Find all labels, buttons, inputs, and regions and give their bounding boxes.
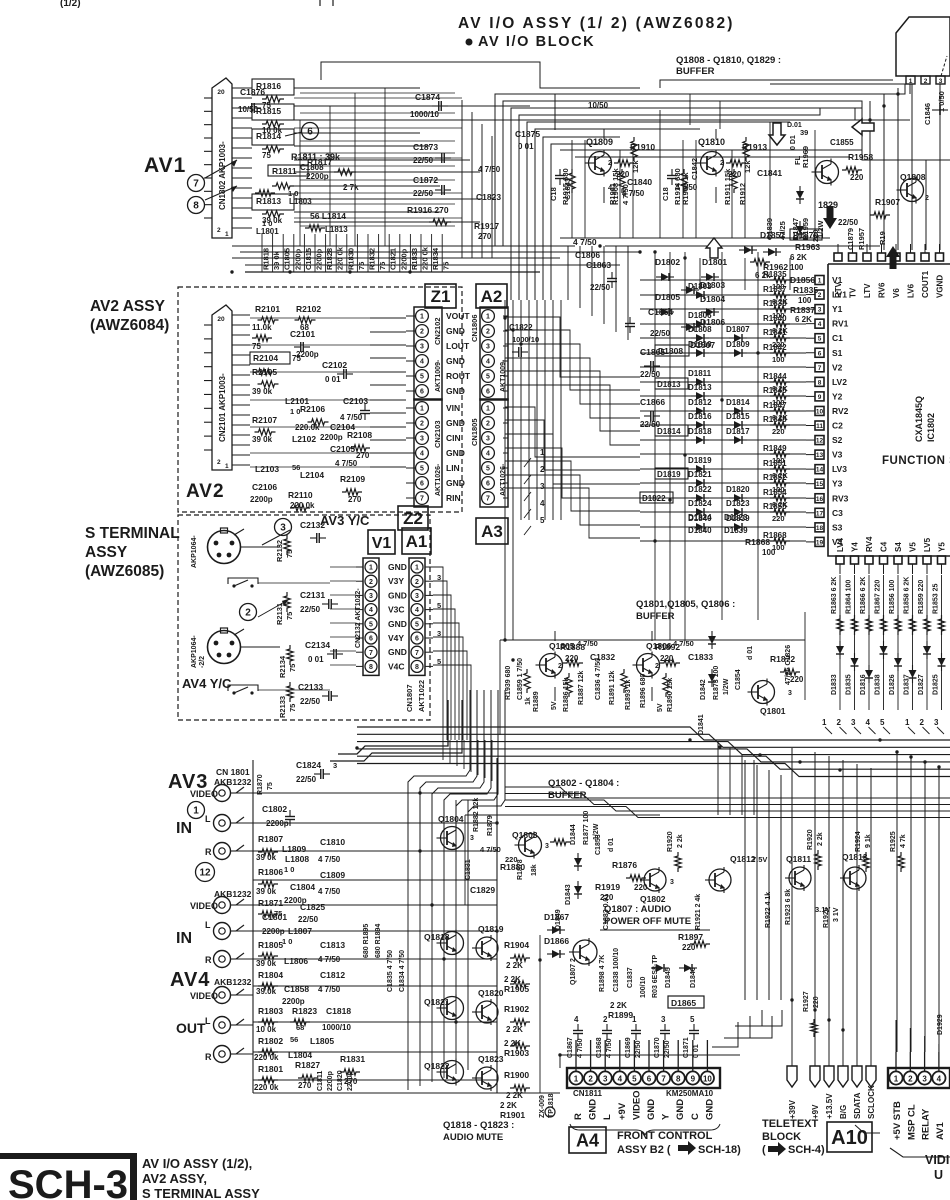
svg-text:C1853: C1853 <box>595 834 602 855</box>
svg-text:D1822: D1822 <box>688 485 712 494</box>
svg-text:3: 3 <box>922 1075 927 1084</box>
svg-text:R1901: R1901 <box>500 1110 525 1120</box>
svg-text:12: 12 <box>199 868 211 879</box>
svg-text:R1866 6 2K: R1866 6 2K <box>860 577 867 614</box>
svg-text:R1891 12k: R1891 12k <box>609 671 616 705</box>
svg-text:C1834 4 7/50: C1834 4 7/50 <box>399 950 406 992</box>
svg-text:R1851: R1851 <box>763 459 787 468</box>
svg-text:R2102: R2102 <box>296 304 321 314</box>
svg-text:IC1802: IC1802 <box>926 413 936 442</box>
svg-text:R1922 4 1k: R1922 4 1k <box>765 892 772 928</box>
svg-text:8: 8 <box>193 201 199 212</box>
svg-text:C18: C18 <box>549 187 558 201</box>
svg-text:R1814: R1814 <box>256 131 281 141</box>
svg-text:+9V: +9V <box>811 1104 820 1119</box>
svg-text:IN: IN <box>176 820 192 837</box>
svg-text:D1818: D1818 <box>688 427 712 436</box>
svg-text:13: 13 <box>816 452 824 459</box>
svg-text:R1817: R1817 <box>307 157 332 167</box>
svg-text:R1856 100: R1856 100 <box>889 580 896 614</box>
svg-text:RELAY: RELAY <box>921 1108 932 1140</box>
svg-text:1000/10: 1000/10 <box>410 110 439 119</box>
svg-text:+39V: +39V <box>788 1099 797 1119</box>
svg-text:9 1k: 9 1k <box>865 834 872 848</box>
svg-text:VIN: VIN <box>446 403 460 413</box>
svg-text:2 2K: 2 2K <box>500 1101 517 1110</box>
svg-text:1: 1 <box>486 406 490 413</box>
svg-text:270: 270 <box>356 451 370 460</box>
svg-text:LIN: LIN <box>446 463 460 473</box>
svg-text:39 0k: 39 0k <box>272 250 281 270</box>
svg-text:R1802: R1802 <box>258 1036 283 1046</box>
svg-text:220 0k: 220 0k <box>421 246 430 270</box>
svg-text:R1907: R1907 <box>875 197 900 207</box>
svg-text:Q1810: Q1810 <box>698 137 725 147</box>
svg-text:L1806: L1806 <box>284 956 308 966</box>
svg-text:C: C <box>690 1113 701 1120</box>
svg-text:D1840: D1840 <box>688 526 712 535</box>
svg-text:R1927: R1927 <box>803 991 810 1012</box>
svg-text:R1842: R1842 <box>763 343 787 352</box>
svg-text:2200p: 2200p <box>266 819 289 828</box>
svg-text:22/50: 22/50 <box>413 189 434 198</box>
svg-text:2: 2 <box>608 160 612 167</box>
svg-text:11.0k: 11.0k <box>252 323 272 332</box>
svg-text:C1804: C1804 <box>290 882 315 892</box>
svg-text:R: R <box>205 847 212 857</box>
svg-text:D1802: D1802 <box>655 257 680 267</box>
svg-text:ZX-009: ZX-009 <box>539 1095 546 1118</box>
svg-text:220: 220 <box>772 427 785 436</box>
svg-text:3: 3 <box>486 344 490 351</box>
svg-text:R1904: R1904 <box>504 940 529 950</box>
svg-text:SCH-4): SCH-4) <box>788 1144 825 1156</box>
svg-text:2200p: 2200p <box>327 1071 334 1091</box>
svg-text:C1842: C1842 <box>690 158 699 180</box>
svg-text:5: 5 <box>632 1075 637 1084</box>
svg-text:Y2: Y2 <box>832 391 843 401</box>
svg-text:S2: S2 <box>832 435 843 445</box>
svg-text:10: 10 <box>703 1075 712 1084</box>
svg-text:6: 6 <box>420 481 424 488</box>
svg-text:75: 75 <box>357 262 366 270</box>
svg-text:Q1807 : AUDIO: Q1807 : AUDIO <box>604 904 671 915</box>
svg-text:22/50: 22/50 <box>300 605 321 614</box>
svg-text:R1841: R1841 <box>763 328 787 337</box>
svg-text:(: ( <box>762 1144 766 1156</box>
svg-text:C1: C1 <box>832 333 843 343</box>
svg-text:4: 4 <box>420 359 424 366</box>
svg-text:S TERMINAL: S TERMINAL <box>85 525 180 542</box>
svg-text:C2: C2 <box>832 421 843 431</box>
svg-text:(AWZ6085): (AWZ6085) <box>85 563 164 580</box>
svg-text:5: 5 <box>540 516 545 525</box>
svg-text:C1836 4 7/50: C1836 4 7/50 <box>595 658 602 700</box>
svg-text:GND: GND <box>675 1099 686 1120</box>
svg-text:CIN: CIN <box>446 433 461 443</box>
svg-text:3: 3 <box>603 1075 608 1084</box>
svg-text:D1814: D1814 <box>657 427 681 436</box>
svg-text:D1805: D1805 <box>655 292 680 302</box>
svg-text:3: 3 <box>851 718 856 727</box>
svg-text:Q1819: Q1819 <box>478 924 504 934</box>
svg-text:1k: 1k <box>525 697 532 705</box>
svg-text:2200p: 2200p <box>399 248 408 270</box>
svg-text:A4: A4 <box>576 1130 599 1150</box>
svg-text:5: 5 <box>415 621 419 628</box>
svg-text:GND: GND <box>388 647 407 657</box>
svg-text:R1916 270: R1916 270 <box>407 205 449 215</box>
svg-text:L: L <box>205 814 211 824</box>
svg-text:L1803: L1803 <box>289 197 312 206</box>
svg-text:6 2K: 6 2K <box>795 315 812 324</box>
svg-text:3: 3 <box>540 482 545 491</box>
svg-text:2200p: 2200p <box>293 248 302 270</box>
svg-text:R1837: R1837 <box>763 285 787 294</box>
svg-text:R1963: R1963 <box>795 242 820 252</box>
svg-text:R1832: R1832 <box>368 248 377 270</box>
svg-text:2: 2 <box>720 160 724 167</box>
svg-text:C1833: C1833 <box>688 652 713 662</box>
svg-text:R1840: R1840 <box>763 314 787 323</box>
svg-text:V3: V3 <box>832 450 843 460</box>
svg-text:R1958: R1958 <box>848 152 873 162</box>
svg-text:D1870: D1870 <box>793 230 818 240</box>
svg-text:L1807: L1807 <box>288 926 312 936</box>
svg-text:R1858 6 2K: R1858 6 2K <box>904 577 911 614</box>
svg-text:2: 2 <box>415 579 419 586</box>
svg-text:R1827: R1827 <box>295 1060 320 1070</box>
svg-text:3: 3 <box>333 761 337 770</box>
svg-text:D1825: D1825 <box>933 674 940 695</box>
svg-text:LV5: LV5 <box>923 537 932 552</box>
svg-text:7: 7 <box>818 365 822 372</box>
svg-text:Q1808 - Q1810, Q1829 :: Q1808 - Q1810, Q1829 : <box>676 55 781 66</box>
svg-text:270: 270 <box>478 232 492 241</box>
svg-text:A2: A2 <box>481 287 503 306</box>
svg-text:75: 75 <box>378 262 387 270</box>
svg-text:R1878: R1878 <box>517 859 524 880</box>
svg-text:Q1803: Q1803 <box>512 830 538 840</box>
svg-text:CN2101 AKP1003-: CN2101 AKP1003- <box>218 373 227 442</box>
svg-text:Q1818: Q1818 <box>424 932 450 942</box>
svg-text:R1837: R1837 <box>790 305 815 315</box>
svg-text:GND: GND <box>388 562 407 572</box>
svg-text:5: 5 <box>369 621 373 628</box>
svg-text:8: 8 <box>369 664 373 671</box>
svg-text:100: 100 <box>762 548 776 557</box>
svg-text:C1838 100/10: C1838 100/10 <box>613 948 620 992</box>
svg-text:SCLOCK: SCLOCK <box>867 1085 876 1119</box>
svg-text:1: 1 <box>369 565 373 572</box>
svg-text:D1866: D1866 <box>544 936 569 946</box>
svg-text:1 0: 1 0 <box>290 407 300 416</box>
svg-text:2: 2 <box>908 1075 913 1084</box>
svg-text:FRONT CONTROL: FRONT CONTROL <box>617 1130 713 1142</box>
svg-text:C1873: C1873 <box>413 142 438 152</box>
svg-text:CN 1801: CN 1801 <box>216 767 250 777</box>
svg-text:L1805: L1805 <box>310 1036 334 1046</box>
svg-text:C1863: C1863 <box>586 260 611 270</box>
svg-text:Q1804: Q1804 <box>438 814 464 824</box>
svg-text:22/50: 22/50 <box>838 218 859 227</box>
svg-text:4 7/50: 4 7/50 <box>480 845 501 854</box>
svg-text:R1863 6 2K: R1863 6 2K <box>831 577 838 614</box>
svg-text:R1806: R1806 <box>258 867 283 877</box>
svg-text:A3: A3 <box>481 522 503 541</box>
svg-text:2200p: 2200p <box>347 1071 354 1091</box>
svg-text:D1808: D1808 <box>688 325 712 334</box>
svg-text:39 0k: 39 0k <box>256 959 277 968</box>
svg-text:4: 4 <box>369 607 373 614</box>
svg-text:SCH-18): SCH-18) <box>698 1144 741 1156</box>
svg-text:16: 16 <box>816 496 824 503</box>
svg-text:Q1818 - Q1823 :: Q1818 - Q1823 : <box>443 1120 514 1131</box>
svg-text:KM250MA10: KM250MA10 <box>666 1089 714 1098</box>
svg-text:2: 2 <box>217 227 221 234</box>
svg-text:R1939 680: R1939 680 <box>505 666 512 700</box>
svg-text:AV4: AV4 <box>170 969 210 991</box>
svg-text:7: 7 <box>420 496 424 503</box>
svg-text:R1893 1k: R1893 1k <box>625 680 632 710</box>
svg-text:GND: GND <box>388 590 407 600</box>
svg-text:C1858: C1858 <box>284 984 309 994</box>
svg-text:R: R <box>205 1052 212 1062</box>
svg-text:R1898 4 7K: R1898 4 7K <box>599 955 606 992</box>
svg-text:D1842: D1842 <box>700 679 707 700</box>
svg-text:R1813: R1813 <box>256 196 281 206</box>
svg-text:R1853 25: R1853 25 <box>933 584 940 614</box>
svg-text:GND: GND <box>704 1099 715 1120</box>
svg-text:1 0/50: 1 0/50 <box>937 91 946 112</box>
svg-text:BUFFER: BUFFER <box>636 611 675 622</box>
svg-text:2 2k: 2 2k <box>817 832 824 846</box>
svg-text:VIDEO: VIDEO <box>631 1090 642 1120</box>
svg-text:LV1: LV1 <box>832 290 847 300</box>
svg-text:75: 75 <box>262 151 271 160</box>
svg-text:1: 1 <box>632 1015 637 1024</box>
svg-text:LV4: LV4 <box>836 537 845 552</box>
svg-text:220 0k: 220 0k <box>254 1053 279 1062</box>
svg-text:CXA1845Q: CXA1845Q <box>914 396 924 442</box>
svg-text:8: 8 <box>676 1075 681 1084</box>
svg-text:+9V: +9V <box>617 1102 628 1120</box>
svg-text:D1820: D1820 <box>726 485 750 494</box>
svg-text:220.0k: 220.0k <box>295 423 320 432</box>
svg-text:5: 5 <box>486 374 490 381</box>
svg-text:D1844: D1844 <box>570 824 577 845</box>
svg-text:R1886 15k: R1886 15k <box>563 678 570 712</box>
svg-text:AV2: AV2 <box>186 481 225 502</box>
svg-text:4: 4 <box>618 1075 623 1084</box>
svg-text:GND: GND <box>646 1099 657 1120</box>
svg-text:D1813: D1813 <box>688 383 712 392</box>
svg-text:R1969: R1969 <box>801 146 810 168</box>
svg-text:1: 1 <box>540 448 545 457</box>
svg-text:4: 4 <box>574 1015 579 1024</box>
svg-text:2: 2 <box>420 329 424 336</box>
svg-text:R1859 220: R1859 220 <box>918 580 925 614</box>
svg-text:GND: GND <box>388 619 407 629</box>
svg-text:100: 100 <box>798 296 812 305</box>
svg-text:C2132: C2132 <box>300 520 325 530</box>
svg-text:R1828: R1828 <box>325 248 334 270</box>
svg-text:CN2102: CN2102 <box>433 317 442 345</box>
svg-text:S3: S3 <box>832 522 843 532</box>
svg-text:C1811: C1811 <box>317 1071 324 1091</box>
svg-text:LV3: LV3 <box>832 464 847 474</box>
svg-text:3: 3 <box>415 593 419 600</box>
svg-text:AV1: AV1 <box>935 1122 946 1140</box>
svg-text:39 0k: 39 0k <box>252 387 273 396</box>
svg-text:C1874: C1874 <box>415 92 440 102</box>
svg-text:1: 1 <box>574 1075 579 1084</box>
svg-text:R1845: R1845 <box>763 386 787 395</box>
svg-text:LTV: LTV <box>863 283 872 298</box>
svg-text:D1807: D1807 <box>726 325 750 334</box>
svg-text:Q1807 2: Q1807 2 <box>570 958 577 985</box>
svg-text:1: 1 <box>822 718 827 727</box>
svg-text:C2133: C2133 <box>298 682 323 692</box>
svg-text:5: 5 <box>818 336 822 343</box>
svg-text:R2108: R2108 <box>347 430 372 440</box>
svg-text:4: 4 <box>486 359 490 366</box>
svg-text:L1809: L1809 <box>282 844 306 854</box>
svg-text:100: 100 <box>790 263 804 272</box>
svg-text:SDATA: SDATA <box>853 1092 862 1119</box>
svg-text:22/50: 22/50 <box>590 283 611 292</box>
svg-text:4: 4 <box>818 321 822 328</box>
svg-text:Q1802 - Q1804 :: Q1802 - Q1804 : <box>548 778 619 789</box>
svg-text:D1837: D1837 <box>904 674 911 695</box>
svg-text:BUFFER: BUFFER <box>676 66 715 77</box>
svg-text:Q1820: Q1820 <box>478 988 504 998</box>
svg-text:L1808: L1808 <box>285 854 309 864</box>
svg-text:6: 6 <box>818 350 822 357</box>
svg-text:Y1: Y1 <box>832 304 843 314</box>
svg-text:R03 6ES8-TP: R03 6ES8-TP <box>652 954 659 998</box>
svg-text:R1823: R1823 <box>292 1006 317 1016</box>
svg-text:BUFFER: BUFFER <box>548 790 587 801</box>
svg-text:2200p: 2200p <box>262 927 285 936</box>
svg-text:CN1806: CN1806 <box>470 314 479 342</box>
svg-text:B/G: B/G <box>839 1105 848 1119</box>
svg-text:V4C: V4C <box>388 661 405 671</box>
svg-text:U: U <box>934 1168 943 1182</box>
svg-text:D1865: D1865 <box>671 998 696 1008</box>
svg-text:C2106: C2106 <box>252 482 277 492</box>
svg-text:AKT1026-: AKT1026- <box>500 463 507 496</box>
svg-text:4: 4 <box>540 499 545 508</box>
svg-text:D1810: D1810 <box>688 340 712 349</box>
svg-text:22/50: 22/50 <box>300 697 321 706</box>
svg-text:D1839: D1839 <box>724 526 748 535</box>
svg-text:R1912: R1912 <box>738 183 747 205</box>
svg-text:D1857: D1857 <box>760 230 785 240</box>
svg-text:3: 3 <box>934 718 939 727</box>
svg-text:L2103: L2103 <box>255 464 279 474</box>
svg-text:R1847: R1847 <box>763 401 787 410</box>
svg-text:R1871: R1871 <box>258 898 283 908</box>
svg-text:C1854: C1854 <box>735 669 742 690</box>
svg-text:AV4 Y/C: AV4 Y/C <box>182 676 232 691</box>
svg-text:1: 1 <box>193 806 199 817</box>
svg-text:C1835 4 7/50: C1835 4 7/50 <box>387 950 394 992</box>
svg-text:3.1V: 3.1V <box>815 905 830 914</box>
svg-text:R1890 15k: R1890 15k <box>667 678 674 712</box>
svg-text:C1815: C1815 <box>304 248 313 270</box>
svg-text:2: 2 <box>925 195 929 202</box>
svg-text:R1873 100: R1873 100 <box>713 666 720 700</box>
svg-text:R1849: R1849 <box>763 444 787 453</box>
svg-text:1: 1 <box>486 314 490 321</box>
svg-text:R1876: R1876 <box>612 860 637 870</box>
svg-text:R1899: R1899 <box>608 1010 633 1020</box>
svg-text:R1818: R1818 <box>262 248 271 270</box>
svg-text:L1801: L1801 <box>256 227 279 236</box>
svg-text:2: 2 <box>369 579 373 586</box>
svg-text:C2131: C2131 <box>300 590 325 600</box>
svg-text:Q1808: Q1808 <box>900 172 926 182</box>
svg-text:RV2: RV2 <box>832 406 849 416</box>
svg-text:C2101: C2101 <box>290 329 315 339</box>
svg-text:VOUT: VOUT <box>446 311 470 321</box>
svg-text:1: 1 <box>225 231 229 238</box>
svg-text:A10: A10 <box>831 1127 868 1149</box>
svg-text:Y5: Y5 <box>938 542 947 552</box>
svg-text:TELETEXT: TELETEXT <box>762 1118 819 1130</box>
svg-text:39 0k: 39 0k <box>256 887 277 896</box>
svg-text:AKT1022: AKT1022 <box>417 680 426 712</box>
svg-text:D1822: D1822 <box>642 494 666 503</box>
svg-text:2: 2 <box>655 663 659 670</box>
svg-text:4: 4 <box>420 451 424 458</box>
svg-text:75: 75 <box>252 342 261 351</box>
svg-text:39: 39 <box>800 128 808 137</box>
svg-text:1 0: 1 0 <box>282 937 292 946</box>
svg-text:5: 5 <box>880 718 885 727</box>
svg-text:R19: R19 <box>878 231 887 245</box>
svg-text:3 1V: 3 1V <box>833 907 840 922</box>
svg-text:1: 1 <box>415 565 419 572</box>
svg-text:10: 10 <box>816 408 824 415</box>
svg-text:2: 2 <box>486 329 490 336</box>
svg-text:11: 11 <box>816 423 823 430</box>
svg-text:CN1805: CN1805 <box>470 418 479 446</box>
svg-text:RV3: RV3 <box>832 493 849 503</box>
svg-text:AV2 ASSY,: AV2 ASSY, <box>142 1171 207 1186</box>
svg-text:d 01: d 01 <box>608 838 615 852</box>
svg-text:Y4: Y4 <box>851 542 860 552</box>
svg-text:0 01: 0 01 <box>693 1044 700 1058</box>
svg-text:Y3: Y3 <box>832 479 843 489</box>
svg-text:d 01: d 01 <box>747 646 754 660</box>
svg-text:L: L <box>205 1016 211 1026</box>
svg-text:D1806: D1806 <box>688 311 712 320</box>
svg-text:2: 2 <box>540 465 545 474</box>
svg-text:D1808: D1808 <box>658 346 683 356</box>
svg-text:RV1: RV1 <box>832 319 849 329</box>
svg-text:CN1802 AKP1003-: CN1802 AKP1003- <box>218 141 227 210</box>
svg-text:1: 1 <box>905 718 910 727</box>
svg-text:R1830: R1830 <box>346 248 355 270</box>
svg-text:R1854: R1854 <box>763 488 787 497</box>
svg-text:AKB1232: AKB1232 <box>214 977 252 987</box>
svg-text:CN2132 AKT1022-: CN2132 AKT1022- <box>355 588 362 648</box>
svg-text:R1833: R1833 <box>410 248 419 270</box>
svg-text:4 7k: 4 7k <box>900 834 907 848</box>
svg-text:1000/10: 1000/10 <box>322 1023 351 1032</box>
